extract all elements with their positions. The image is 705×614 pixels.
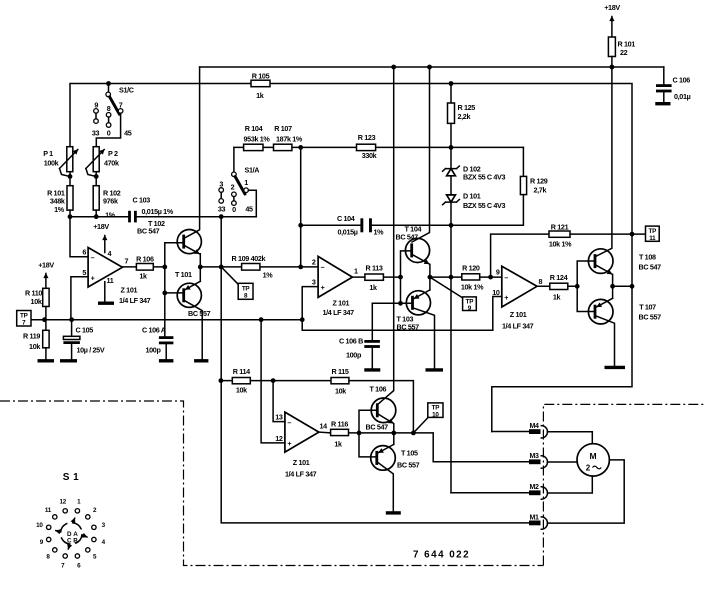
svg-text:–: – [287,418,291,427]
wire to T105 base [359,433,377,457]
node dots on rail [106,81,111,86]
transistor T104 BC547 [396,67,430,277]
capacitor C106A (100p) [142,293,173,359]
connector M4 [492,423,593,444]
svg-text:+18V: +18V [604,3,620,12]
svg-text:100k: 100k [44,159,59,168]
wire pin2 node vertical x=300.7 [300,147,302,267]
test point TP10 [413,403,443,433]
svg-text:BC 547: BC 547 [137,227,160,236]
svg-text:0: 0 [232,205,236,214]
svg-text:C 106 A: C 106 A [142,326,166,335]
resistor R104 [244,124,271,151]
motor M 2~ [577,444,609,476]
svg-text:8: 8 [107,104,111,113]
svg-text:10µ / 25V: 10µ / 25V [77,346,105,355]
resistor R120 (10k 1%) [461,264,502,292]
svg-text:BC 547: BC 547 [366,423,389,432]
resistor R129 (2,7k) [301,147,548,225]
test point TP8 [221,267,253,300]
ground C106A [159,359,174,362]
svg-text:0,015µ 1%: 0,015µ 1% [142,207,174,216]
svg-text:T 106: T 106 [370,385,387,394]
transistor T108 BC547 [588,67,661,286]
svg-text:1k: 1k [256,91,264,100]
ground T105 collector [386,511,401,514]
ground C106B [364,368,380,371]
svg-text:7 644 022: 7 644 022 [413,550,470,561]
svg-text:12: 12 [60,499,67,506]
svg-text:B: B [73,538,78,545]
switch S1/C [92,84,134,147]
ground T101 collector [194,359,208,362]
zener diode D102 [443,147,506,195]
wire node to R120 [430,276,462,278]
svg-text:TP: TP [20,313,28,320]
svg-text:33: 33 [92,129,100,138]
node T104/T103 junction [428,275,433,280]
svg-text:13: 13 [275,413,283,422]
svg-text:10: 10 [492,288,500,297]
svg-text:11: 11 [45,507,52,514]
svg-text:T 101: T 101 [175,270,192,279]
svg-text:10k: 10k [29,342,40,351]
svg-text:+18V: +18V [38,261,54,270]
resistor R113 (1k) [352,264,400,293]
svg-text:C 106: C 106 [673,76,691,85]
wire to T104 base [401,251,412,277]
wire T103 base node down from R113 junction [400,277,402,303]
transistor T101 BC557 [175,267,211,360]
test point TP11 [646,226,660,242]
svg-text:1k: 1k [139,272,147,281]
wiper B [76,535,82,543]
node junction dots on +18V rail [391,65,396,70]
capacitor C106B (100p) [339,303,380,368]
svg-text:C 104: C 104 [337,214,355,223]
wire R104 row y=147.4 [234,146,524,148]
svg-text:10k 1%: 10k 1% [461,283,484,292]
svg-text:Z 101: Z 101 [510,310,527,319]
svg-text:M3: M3 [530,453,540,460]
wire R114/R115 row y=380.6 [221,381,414,433]
svg-text:BZX 55 C 4V3: BZX 55 C 4V3 [463,201,505,210]
svg-text:R 105: R 105 [252,72,270,81]
resistor R106 (1k) [122,255,164,281]
node +18V supply label top right [604,3,620,37]
svg-text:2: 2 [312,258,316,267]
svg-text:–: – [321,263,325,272]
capacitor C106 [656,67,691,102]
svg-text:12: 12 [275,434,283,443]
wire emitter node row y=432.9 [359,433,529,462]
svg-text:9: 9 [94,101,98,110]
resistor R119 (10k) [23,320,49,360]
svg-text:8: 8 [539,277,543,286]
resistor R110 (10k) [25,288,49,319]
test point TP9 [430,277,476,312]
resistor R107 [274,124,303,151]
svg-text:1/4 LF 347: 1/4 LF 347 [285,470,317,479]
switch S1/A [218,147,259,216]
resistor R101 (22) [608,37,635,67]
svg-text:2: 2 [586,464,591,473]
svg-text:100p: 100p [146,346,162,355]
svg-text:4: 4 [108,249,112,258]
resistor R102 (976k) [93,186,121,220]
svg-text:1: 1 [244,178,248,187]
svg-text:1k: 1k [553,293,561,302]
svg-text:3: 3 [312,278,316,287]
transistor T105 BC557 [371,433,420,512]
svg-text:0,015µ: 0,015µ [338,228,358,237]
node T106/T105 junction [391,431,396,436]
test point TP7 [17,311,31,327]
svg-text:2,7k: 2,7k [534,186,547,195]
ground R119 [38,359,55,362]
node R106 output junction [162,265,167,270]
resistor R115 (10k) [331,367,349,396]
node T102/T101 junction [198,265,203,270]
svg-text:TP: TP [242,286,250,293]
svg-text:0: 0 [107,129,111,138]
connector M2 [451,476,592,499]
svg-text:C 103: C 103 [133,196,151,205]
svg-text:10k: 10k [236,386,247,395]
svg-text:C: C [67,538,72,545]
ground T107 collector [605,366,626,369]
svg-text:45: 45 [124,129,132,138]
svg-text:1%: 1% [105,211,116,220]
node +18V supply op1 pin 4 [93,222,109,253]
svg-text:BC 557: BC 557 [188,309,211,318]
node +18V supply R110 [38,261,54,289]
wire to T103 base [372,302,412,304]
svg-text:M: M [589,451,596,461]
capacitor C105 (10µ/25V electrolytic) [63,320,104,360]
ground op1 pin 11 [98,282,114,304]
svg-text:7: 7 [119,101,123,110]
svg-text:10k: 10k [31,297,42,306]
svg-text:–: – [91,253,95,262]
chain-dotted boundary right [543,404,705,565]
svg-text:+: + [321,283,325,292]
svg-text:R 124: R 124 [550,273,568,282]
op-amp Z101 1/4 LF347 (pins 13,12,14) [275,412,327,478]
wire reference net y=319.7 [31,319,302,321]
zener diode D101 [443,192,506,493]
svg-text:M2: M2 [530,484,540,491]
svg-text:R 115: R 115 [331,367,348,376]
svg-text:1: 1 [354,267,358,276]
op-amp Z101 1/4 LF347 (pins 2,3,1) [301,256,358,319]
svg-text:R 125: R 125 [458,103,476,112]
svg-text:+18V: +18V [93,222,109,231]
resistor R121 (10k 1%) [491,223,646,278]
svg-text:C 106 B: C 106 B [339,337,363,346]
transistor T103 BC557 [397,277,435,368]
svg-text:R 107: R 107 [274,124,292,133]
svg-text:10k 1%: 10k 1% [549,240,572,249]
svg-text:187k 1%: 187k 1% [276,135,303,144]
svg-text:R 120: R 120 [462,264,480,273]
svg-text:9: 9 [496,268,500,277]
resistor R123 [357,133,377,160]
svg-text:+: + [504,293,508,302]
op-amp Z101 1/4 LF347 (pins 9,10,8) [492,266,542,330]
svg-text:1%: 1% [263,271,274,280]
wire op4 pin 13 input [273,381,285,422]
svg-text:45: 45 [245,205,253,214]
op-amp Z101 1/4 LF347 (pins 6,5,7) [82,248,150,306]
wire to T106 base [359,410,377,433]
wire emitter output node [613,285,632,287]
svg-text:Z 101: Z 101 [293,458,310,467]
svg-text:10k: 10k [335,387,346,396]
transistor T107 BC557 [588,286,661,366]
svg-text:10: 10 [36,522,43,529]
svg-text:BC 547: BC 547 [639,263,662,272]
connector M3 [529,453,577,468]
svg-text:1%: 1% [54,205,65,214]
svg-text:+: + [91,274,95,283]
potentiometer P2 (470k) [86,147,119,186]
svg-text:100p: 100p [346,351,362,360]
wiper A [73,523,81,529]
svg-text:1%: 1% [374,228,385,237]
transistor T106 BC547 [366,385,396,433]
wire op1 pin 6 input [70,217,88,257]
svg-text:5: 5 [82,268,86,277]
svg-text:BC 557: BC 557 [397,461,420,470]
svg-text:11: 11 [649,235,656,242]
node R116 output junction [357,431,362,436]
potentiometer P1 (100k) [43,147,78,186]
svg-text:T 108: T 108 [639,253,656,262]
wire feedback rail y=83.5 [70,84,632,432]
svg-text:3: 3 [219,180,223,189]
svg-text:6: 6 [82,248,86,257]
resistor R109 (402k) [200,254,300,280]
resistor R116 (1k) [319,420,359,449]
svg-text:953k 1%: 953k 1% [244,135,271,144]
svg-text:R 119: R 119 [23,332,40,341]
svg-text:470k: 470k [104,159,119,168]
svg-text:S1/A: S1/A [245,166,260,175]
wire bus y=216.7 [70,216,256,218]
svg-text:11: 11 [107,276,114,285]
svg-text:–: – [504,273,508,282]
wire to T102 base [165,243,184,267]
wiper D [61,524,67,532]
wire to T108 base [577,261,595,286]
svg-text:R 106: R 106 [136,255,154,264]
svg-text:D 101: D 101 [463,192,481,201]
ground C105 [60,359,77,362]
svg-text:10: 10 [432,411,439,418]
svg-text:R 114: R 114 [233,367,250,376]
svg-text:1/4 LF 347: 1/4 LF 347 [502,322,534,331]
svg-text:C 105: C 105 [76,326,94,335]
svg-text:T 105: T 105 [401,449,418,458]
resistor R105 [251,72,270,101]
svg-text:P 1: P 1 [43,149,53,158]
svg-text:BZX 55 C 4V3: BZX 55 C 4V3 [463,173,505,182]
svg-text:BC 547: BC 547 [396,233,419,242]
svg-text:1/4 LF 347: 1/4 LF 347 [323,308,355,317]
capacitor C104 [337,214,384,237]
svg-text:7: 7 [125,257,129,266]
wire op4 pin 12 input [261,320,285,443]
chain-dotted boundary left [0,401,543,566]
wire +18V rail y=67 [200,66,664,68]
svg-text:S 1: S 1 [63,472,80,483]
svg-text:14: 14 [320,421,328,430]
svg-text:+: + [287,439,291,448]
svg-text:33: 33 [218,205,226,214]
resistor R124 (1k) [537,273,577,302]
svg-text:BC 557: BC 557 [639,313,662,322]
connector M1 [529,460,624,529]
wire to T101 base [165,267,184,293]
resistor R125 (2,2k) [448,84,476,148]
svg-text:R 109 402k: R 109 402k [232,254,266,263]
svg-text:S1/C: S1/C [119,86,134,95]
svg-text:1k: 1k [334,440,342,449]
svg-text:T 107: T 107 [639,303,656,312]
wire op1 pin 5 input [71,277,88,320]
svg-text:330k: 330k [362,151,377,160]
svg-text:1/4 LF 347: 1/4 LF 347 [119,296,151,305]
ground for C106 [655,102,670,105]
svg-text:0,01µ: 0,01µ [674,92,691,101]
svg-text:P 2: P 2 [108,149,118,158]
svg-text:1k: 1k [369,283,377,292]
svg-text:2,2k: 2,2k [458,112,471,121]
transistor T102 BC547 [137,67,201,267]
svg-text:R 129: R 129 [530,177,548,186]
svg-text:M4: M4 [530,423,540,430]
svg-text:TP: TP [649,228,657,235]
wire T106 collector rail x=393.7 [378,67,394,405]
svg-text:976k: 976k [103,197,118,206]
switch S1 rotary wafer [36,472,105,570]
svg-text:2: 2 [231,183,235,192]
wire reference to op3 pin10 (y=330) [302,297,502,331]
svg-text:Z 101: Z 101 [121,286,138,295]
svg-text:R 104: R 104 [245,124,263,133]
wire to T107 base [577,286,595,311]
wiper C [62,538,70,544]
svg-text:Z 101: Z 101 [333,299,350,308]
resistor R101 (348k) [47,186,73,217]
wire S1A contact 33 branch down to M1 [221,217,529,523]
resistor R114 (10k) [232,367,250,395]
svg-text:22: 22 [620,48,628,57]
ground T103 collector [426,368,444,371]
svg-text:M1: M1 [530,514,540,521]
svg-text:R 123: R 123 [358,133,376,142]
node R113 output junction [398,275,403,280]
svg-text:R 116: R 116 [331,420,348,429]
capacitor C103 [130,196,174,223]
svg-text:R 113: R 113 [365,264,382,273]
svg-text:R 121: R 121 [551,223,569,232]
node R124 output junction [575,284,580,289]
